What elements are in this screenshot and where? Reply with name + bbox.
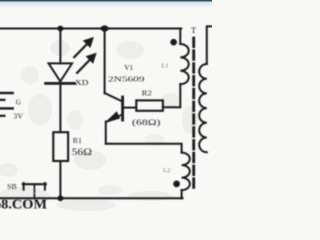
transistor V1 emitter arrowhead <box>106 112 120 122</box>
junction dot top-left <box>58 26 64 32</box>
svg-text:L1: L1 <box>161 62 168 69</box>
polarity dot L2 <box>173 181 180 188</box>
wire R2 to L1 bottom <box>163 84 180 107</box>
battery G plate short 2 <box>0 115 4 117</box>
LED light arrow 2 head <box>86 53 96 63</box>
battery G plate long 2 <box>0 107 13 109</box>
LED light arrow 1 head <box>83 37 93 47</box>
secondary winding <box>199 64 207 152</box>
transformer core dashed line <box>192 38 195 191</box>
svg-text:V1: V1 <box>124 63 133 72</box>
top blue band <box>0 0 212 2</box>
wire collector lead <box>104 29 106 94</box>
wire emitter rail to L2 <box>106 144 182 153</box>
wire LED branch top <box>59 29 61 64</box>
svg-text:R1: R1 <box>73 136 82 145</box>
wire LED to R1 <box>59 85 61 132</box>
resistor R1 <box>53 132 68 161</box>
inductor L2 winding <box>182 153 190 191</box>
svg-text:SB: SB <box>7 182 17 191</box>
junction dot top collector <box>101 25 109 31</box>
transistor Q V1 collector diagonal <box>105 93 122 101</box>
svg-text:(68Ω): (68Ω) <box>132 117 161 127</box>
wire base to R2 <box>124 107 136 109</box>
resistor R2 <box>136 100 163 110</box>
svg-text:o8.COM: o8.COM <box>0 196 47 211</box>
secondary winding top lead <box>207 26 212 64</box>
LED light arrow 2 <box>77 58 91 73</box>
switch SB end tick left <box>23 183 25 190</box>
wire top rail corner to L1 <box>179 29 182 45</box>
switch SB bar <box>23 183 46 185</box>
switch SB end tick right <box>44 183 46 190</box>
LED cathode bar <box>46 82 75 85</box>
switch SB stem dashed <box>33 186 35 198</box>
inductor L1 winding <box>180 44 188 84</box>
svg-text:56Ω: 56Ω <box>72 147 93 157</box>
scan noise blobs <box>0 40 198 211</box>
wire bottom rail <box>0 197 183 199</box>
svg-text:T: T <box>191 26 196 35</box>
battery G plate long 1 <box>0 92 13 94</box>
LED XD triangle <box>49 63 72 81</box>
transistor V1 base bar <box>121 97 124 120</box>
transistor V1 emitter diagonal <box>106 115 122 123</box>
svg-text:3V: 3V <box>13 112 23 121</box>
svg-text:L2: L2 <box>163 167 170 174</box>
junction dot bottom <box>58 195 64 201</box>
LED light arrow 1 <box>74 43 88 58</box>
wire top rail <box>0 28 181 30</box>
battery G plate short 1 <box>0 99 4 101</box>
wire R1 to bottom rail <box>59 161 61 198</box>
wire L2 to bottom rail <box>181 190 183 198</box>
svg-text:2N5609: 2N5609 <box>108 75 145 84</box>
svg-text:G: G <box>16 99 21 107</box>
polarity dot L1 <box>170 39 177 46</box>
wire emitter lead <box>105 122 107 144</box>
svg-text:XD: XD <box>75 78 89 87</box>
svg-text:R2: R2 <box>142 89 152 98</box>
